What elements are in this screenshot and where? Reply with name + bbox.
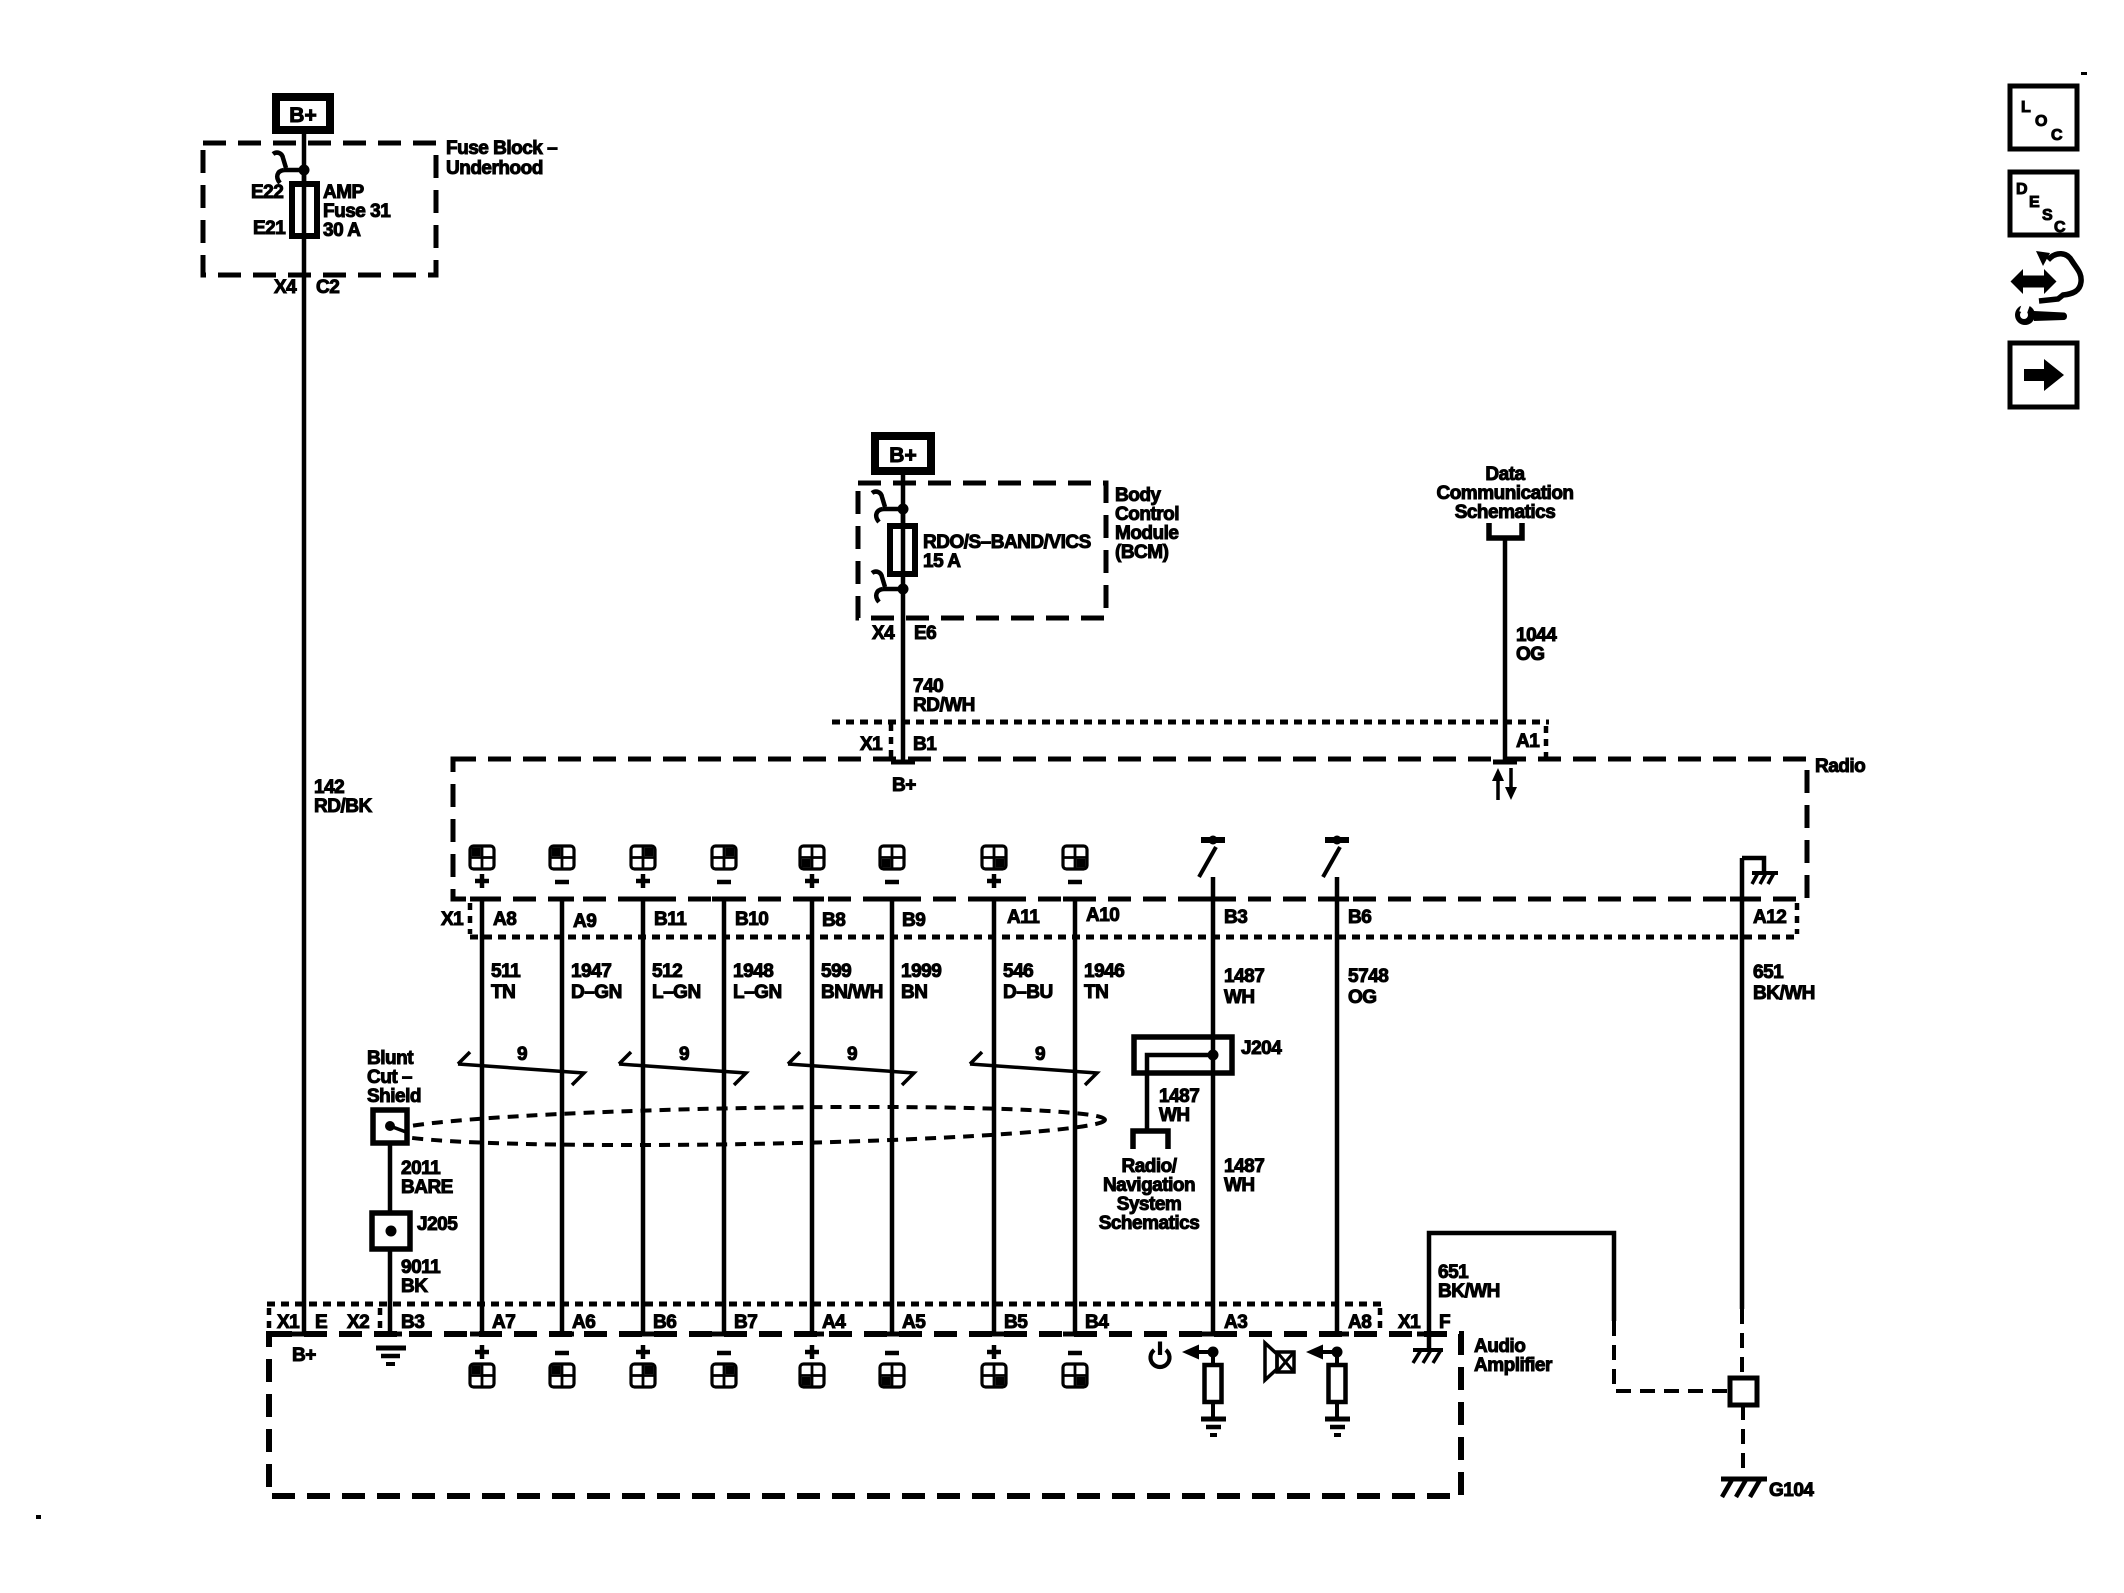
wire label 1946 TN — [1084, 961, 1124, 1003]
ground label G104 — [1769, 1480, 1814, 1501]
svg-text:B5: B5 — [1004, 1312, 1028, 1333]
speaker symbol RF+ (radio B11) — [631, 846, 655, 888]
svg-text:15 A: 15 A — [923, 551, 961, 572]
pin tick A3 — [1201, 1332, 1225, 1337]
svg-text:Radio/: Radio/ — [1121, 1156, 1177, 1177]
speaker symbol LR- (radio B9) — [880, 846, 904, 882]
wire from B+ to fuse block underhood — [302, 134, 307, 184]
pin tick A11 — [982, 897, 1006, 902]
wire label 1487 WH (upper) — [1224, 966, 1264, 1008]
pin label B4 — [1085, 1312, 1109, 1333]
radio connector X1 dotted row (top) — [832, 720, 1549, 725]
speck top right — [2081, 72, 2087, 75]
service icon forward arrow box — [2010, 343, 2077, 407]
svg-text:L: L — [2021, 99, 2031, 116]
svg-text:B7: B7 — [734, 1312, 757, 1333]
pin tick B6 — [631, 1332, 655, 1337]
radio connector X1 dotted row (bottom) — [470, 935, 1797, 940]
Data Communication Schematics reference label — [1436, 464, 1573, 523]
wire label 512 L-GN — [652, 961, 701, 1003]
connector tick between X1 and B1 — [889, 724, 894, 760]
wire 512 L-GN (B11 to B6) — [641, 899, 646, 1334]
wire label 546 D-BU — [1003, 961, 1053, 1003]
svg-text:BARE: BARE — [401, 1177, 453, 1198]
wire label 1487 WH (branch) — [1159, 1086, 1199, 1126]
wire label 740 RD/WH — [913, 676, 975, 716]
svg-text:Fuse Block –: Fuse Block – — [446, 138, 557, 159]
pin tick B1 — [891, 760, 915, 765]
svg-text:TN: TN — [1084, 982, 1108, 1003]
speaker symbol RR+ (amp B5) — [982, 1345, 1006, 1387]
ground connector box G104 — [1730, 1378, 1757, 1405]
svg-text:A5: A5 — [902, 1312, 926, 1333]
svg-text:G104: G104 — [1769, 1480, 1814, 1501]
svg-text:9: 9 — [517, 1044, 527, 1065]
speaker symbol LF- (amp A6) — [550, 1353, 574, 1387]
connector tick left (radio bottom X1) — [468, 903, 473, 934]
wire 142 RD/BK — [302, 236, 307, 1334]
pin label A12 — [1753, 907, 1786, 928]
connector label X1 (radio bottom) — [441, 909, 464, 930]
connector tick right end (radio bottom) — [1795, 903, 1800, 934]
wire 2011 BARE — [388, 1143, 393, 1334]
wire label 5748 OG — [1348, 966, 1388, 1008]
resistor (A8 pull-down) — [1329, 1352, 1346, 1419]
pin tick B11 — [631, 897, 655, 902]
service icon LOC box — [2010, 86, 2077, 149]
wire 1044 OG — [1503, 540, 1508, 762]
speaker symbol RR- (radio A10) — [1063, 846, 1087, 882]
twisted pair marker 1 (9 turns) — [458, 1044, 584, 1085]
pin tick A7 — [470, 1332, 494, 1337]
svg-text:WH: WH — [1224, 987, 1255, 1008]
pin tick B9 — [880, 897, 904, 902]
svg-text:A10: A10 — [1086, 905, 1119, 926]
antenna switch symbol (radio B3) — [1199, 836, 1225, 878]
audio amplifier dashed box — [269, 1334, 1461, 1496]
pin label B11 — [654, 909, 687, 930]
svg-text:B1: B1 — [913, 734, 937, 755]
radio label — [1815, 756, 1865, 777]
svg-text:RD/WH: RD/WH — [913, 695, 975, 716]
svg-text:Underhood: Underhood — [446, 158, 543, 179]
svg-text:B+: B+ — [292, 1345, 316, 1366]
svg-text:1947: 1947 — [571, 961, 611, 982]
svg-text:J205: J205 — [417, 1214, 458, 1235]
wire label 2011 BARE — [401, 1158, 453, 1198]
svg-text:1487: 1487 — [1159, 1086, 1199, 1107]
svg-text:599: 599 — [821, 961, 851, 982]
wire 5748 OG (B6 to A8) — [1335, 877, 1340, 1334]
svg-text:B8: B8 — [822, 910, 845, 931]
wire B+ into BCM — [901, 475, 906, 526]
wire 599 BN/WH (B8 to A4) — [810, 899, 815, 1334]
svg-text:X4: X4 — [872, 623, 895, 644]
connector tick before amp X1 F — [1378, 1308, 1383, 1331]
battery feed B+ box (top left) — [272, 93, 334, 134]
wire label 1948 L-GN — [733, 961, 782, 1003]
speaker symbol RR+ (radio A11) — [982, 846, 1006, 888]
pin label E — [315, 1312, 327, 1333]
svg-text:Cut –: Cut – — [367, 1067, 412, 1088]
svg-text:Module: Module — [1115, 523, 1179, 544]
svg-text:C: C — [2051, 127, 2063, 144]
fuse AMP Fuse 31 30 A — [292, 170, 317, 236]
svg-text:B4: B4 — [1085, 1312, 1109, 1333]
splice J204 — [1134, 1037, 1232, 1073]
speaker symbol RF- (amp B7) — [712, 1353, 736, 1387]
svg-text:BN: BN — [901, 982, 927, 1003]
svg-text:Fuse 31: Fuse 31 — [323, 201, 391, 222]
svg-text:RD/BK: RD/BK — [314, 796, 372, 817]
pin tick B6 — [1325, 897, 1349, 902]
dashed stub below G104 box — [1741, 1405, 1745, 1468]
wire 651 BK/WH (A12) — [1740, 858, 1745, 1309]
svg-text:D–BU: D–BU — [1003, 982, 1053, 1003]
pin label A7 — [492, 1312, 515, 1333]
svg-text:OG: OG — [1516, 644, 1545, 665]
svg-text:Body: Body — [1115, 485, 1161, 506]
radio dashed box — [453, 759, 1807, 899]
Radio/Navigation System Schematics reference label — [1099, 1156, 1200, 1234]
svg-text:Control: Control — [1115, 504, 1179, 525]
svg-text:A11: A11 — [1007, 907, 1040, 928]
control arrow to mute symbol (A8) — [1306, 1345, 1337, 1360]
fuse value label AMP Fuse 31 30 A — [323, 182, 391, 241]
svg-text:D: D — [2016, 181, 2028, 198]
dashed ground path from A12 to G104 — [1740, 1309, 1744, 1376]
fuse RDO/S-BAND/VICS 15 A — [890, 509, 915, 589]
wire 1487 WH (B3 to A3) — [1211, 877, 1216, 1334]
pin label A11 — [1007, 907, 1040, 928]
speck bottom left — [36, 1515, 41, 1519]
pin label A10 — [1086, 905, 1119, 926]
wire 1947 D-GN (A9 to A6) — [560, 899, 565, 1334]
svg-text:B6: B6 — [1348, 907, 1371, 928]
svg-text:BK/WH: BK/WH — [1438, 1281, 1500, 1302]
wire label 599 BN/WH — [821, 961, 883, 1003]
node B+ label inside radio — [892, 775, 916, 796]
svg-text:RDO/S–BAND/VICS: RDO/S–BAND/VICS — [923, 532, 1091, 553]
svg-text:30 A: 30 A — [323, 220, 361, 241]
speaker symbol LF+ (amp A7) — [470, 1345, 494, 1387]
node A8 junction dot — [1332, 1347, 1343, 1358]
svg-text:2011: 2011 — [401, 1158, 441, 1179]
twisted pair marker 3 (9 turns) — [788, 1044, 914, 1085]
svg-text:C2: C2 — [316, 277, 339, 298]
wire 546 D-BU (A11 to B5) — [992, 899, 997, 1334]
wire label 651 BK/WH (A12) — [1753, 962, 1815, 1004]
svg-text:B10: B10 — [735, 909, 768, 930]
connector label X1 (amp right) — [1398, 1312, 1421, 1333]
power on/off symbol — [1151, 1342, 1170, 1368]
splice J205 — [372, 1213, 410, 1249]
pin tick A8 amp — [1325, 1332, 1349, 1337]
pin label B6 (amp) — [653, 1312, 676, 1333]
svg-text:X4: X4 — [274, 277, 297, 298]
speaker mute symbol — [1265, 1343, 1294, 1380]
pin tick F — [1417, 1332, 1441, 1337]
pin tick B8 — [800, 897, 824, 902]
svg-text:X1: X1 — [1398, 1312, 1421, 1333]
pin label B6 — [1348, 907, 1371, 928]
svg-text:B6: B6 — [653, 1312, 676, 1333]
pin label A9 — [573, 911, 596, 932]
pin label A8 — [493, 909, 516, 930]
svg-text:F: F — [1439, 1312, 1450, 1333]
svg-text:9: 9 — [679, 1044, 689, 1065]
blunt cut shield label — [367, 1048, 421, 1107]
pin label B8 — [822, 910, 845, 931]
dashed ground path from 651 to G104 — [1614, 1321, 1728, 1391]
svg-text:A12: A12 — [1753, 907, 1786, 928]
internal chassis ground at radio A12 — [1742, 858, 1778, 884]
off-page connector bracket (Data Communication) — [1489, 523, 1522, 538]
wire 740 RD/WH — [901, 589, 906, 762]
twisted pair marker 2 (9 turns) — [619, 1044, 746, 1085]
speaker symbol LR- (amp A5) — [880, 1353, 904, 1387]
battery feed B+ box (BCM) — [871, 432, 935, 475]
BCM label — [1115, 485, 1179, 563]
svg-text:X2: X2 — [347, 1312, 369, 1333]
svg-text:Schematics: Schematics — [1099, 1213, 1200, 1234]
svg-text:1487: 1487 — [1224, 1156, 1264, 1177]
service icon wiring repair (double arrow, harness outline, wrench) — [2011, 251, 2082, 325]
twisted pair marker 4 (9 turns) — [970, 1044, 1097, 1085]
wire label 142 RD/BK — [314, 777, 372, 817]
svg-text:740: 740 — [913, 676, 943, 697]
wire 651 BK/WH from amp F — [1429, 1233, 1614, 1334]
connector terminal (half-arrow) above BCM fuse — [872, 492, 909, 522]
pin tick A10 — [1063, 897, 1087, 902]
wire 1946 TN (A10 to B4) — [1073, 899, 1078, 1334]
branch wire 1487 WH to radio/navigation — [1147, 1055, 1213, 1129]
svg-text:Blunt: Blunt — [367, 1048, 414, 1069]
pin tick A5 — [880, 1332, 904, 1337]
svg-text:E22: E22 — [251, 182, 283, 203]
svg-text:1999: 1999 — [901, 961, 941, 982]
shield dashed ellipse — [391, 1102, 1106, 1150]
connector labels X4 C2 — [274, 277, 339, 298]
svg-text:C: C — [2054, 219, 2066, 236]
wire label 1044 OG — [1516, 625, 1557, 665]
speaker symbol LR+ (radio B8) — [800, 846, 824, 888]
splice label J204 — [1241, 1038, 1282, 1059]
pin label A4 — [822, 1312, 846, 1333]
wire label 1947 D-GN — [571, 961, 622, 1003]
svg-text:O: O — [2035, 113, 2047, 130]
pin label A3 — [1224, 1312, 1247, 1333]
wire label 1999 BN — [901, 961, 941, 1003]
blunt cut connector box — [373, 1110, 407, 1143]
svg-text:X1: X1 — [441, 909, 464, 930]
wire 511 TN (A8 to A7) — [480, 899, 485, 1334]
wire label 9011 BK — [401, 1257, 441, 1297]
control arrow to power symbol (A3) — [1182, 1345, 1213, 1360]
bidirectional data arrows below A1 — [1492, 768, 1517, 800]
svg-text:A6: A6 — [572, 1312, 595, 1333]
pin tick A8 — [470, 897, 494, 902]
speaker symbol LF- (radio A9) — [550, 846, 574, 882]
wire 1948 L-GN (B10 to B7) — [722, 899, 727, 1334]
connector label X1 (radio top) — [860, 734, 883, 755]
svg-text:E: E — [315, 1312, 327, 1333]
splice label J205 — [417, 1214, 458, 1235]
pin tick A4 — [800, 1332, 824, 1337]
antenna switch symbol (radio B6) — [1323, 836, 1349, 878]
wire label 1487 WH (lower) — [1224, 1156, 1264, 1196]
svg-text:B+: B+ — [892, 775, 916, 796]
svg-text:Shield: Shield — [367, 1086, 421, 1107]
svg-text:1044: 1044 — [1516, 625, 1557, 646]
pin label B3 — [1224, 907, 1247, 928]
connector tick right of A1 — [1544, 726, 1549, 760]
pin tick A9 — [550, 897, 574, 902]
pin tick B4 — [1063, 1332, 1087, 1337]
earth ground (A8) — [1325, 1419, 1350, 1435]
pin tick A6 — [550, 1332, 574, 1337]
svg-text:A9: A9 — [573, 911, 596, 932]
pin label B10 — [735, 909, 768, 930]
speaker symbol LR+ (amp A4) — [800, 1345, 824, 1387]
resistor (A3 pull-down) — [1205, 1352, 1222, 1419]
connector label X2 — [347, 1312, 369, 1333]
speaker symbol LF+ (radio A8) — [470, 846, 494, 888]
svg-text:X1: X1 — [277, 1312, 300, 1333]
svg-text:WH: WH — [1224, 1175, 1255, 1196]
pin label A8 (amp) — [1348, 1312, 1371, 1333]
svg-text:A4: A4 — [822, 1312, 846, 1333]
chassis ground G104 — [1721, 1478, 1767, 1497]
svg-text:BK/WH: BK/WH — [1753, 983, 1815, 1004]
pin label E21 — [253, 218, 286, 239]
pin tick A1 — [1493, 760, 1517, 765]
svg-text:B3: B3 — [401, 1312, 424, 1333]
pin tick B3 — [1201, 897, 1225, 902]
wire 1999 BN (B9 to A5) — [890, 899, 895, 1334]
pin tick B3 shield — [378, 1332, 402, 1337]
svg-text:B+: B+ — [289, 104, 316, 127]
svg-text:Radio: Radio — [1815, 756, 1865, 777]
pin label B5 — [1004, 1312, 1028, 1333]
pin tick B7 — [712, 1332, 736, 1337]
svg-text:142: 142 — [314, 777, 344, 798]
fuse block underhood label — [446, 138, 557, 179]
svg-text:B3: B3 — [1224, 907, 1247, 928]
connector terminal E22 (half-arrow) — [273, 153, 310, 183]
service icon DESC box — [2010, 172, 2077, 236]
svg-text:Schematics: Schematics — [1455, 502, 1556, 523]
svg-text:651: 651 — [1438, 1262, 1469, 1283]
svg-text:1946: 1946 — [1084, 961, 1124, 982]
svg-text:512: 512 — [652, 961, 682, 982]
pin tick B5 — [982, 1332, 1006, 1337]
svg-text:651: 651 — [1753, 962, 1784, 983]
pin tick E — [292, 1332, 316, 1337]
off-page connector bracket (Radio/Navigation) — [1133, 1131, 1168, 1149]
wire label 511 TN — [491, 961, 521, 1003]
audio amplifier label — [1474, 1336, 1553, 1376]
svg-text:9011: 9011 — [401, 1257, 441, 1278]
svg-text:Communication: Communication — [1436, 483, 1573, 504]
svg-text:5748: 5748 — [1348, 966, 1388, 987]
pin label B3 (amp) — [401, 1312, 424, 1333]
svg-text:Amplifier: Amplifier — [1474, 1355, 1553, 1376]
node B+ label inside amplifier — [292, 1345, 316, 1366]
pin label F — [1439, 1312, 1450, 1333]
svg-text:BK: BK — [401, 1276, 428, 1297]
svg-text:B+: B+ — [889, 444, 916, 467]
fuse block underhood dashed box — [203, 143, 436, 275]
connector terminal (half-arrow) below BCM fuse — [872, 572, 909, 602]
svg-text:WH: WH — [1159, 1105, 1190, 1126]
svg-text:511: 511 — [491, 961, 521, 982]
speaker symbol RF- (radio B10) — [712, 846, 736, 882]
connector tick between X2 and B3 — [378, 1308, 383, 1331]
svg-text:A7: A7 — [492, 1312, 515, 1333]
pin label B9 — [902, 910, 925, 931]
internal chassis ground at amp F — [1413, 1334, 1443, 1363]
pin label E22 — [251, 182, 283, 203]
connector label X1 (amp left) — [277, 1312, 300, 1333]
svg-text:Navigation: Navigation — [1103, 1175, 1195, 1196]
svg-text:9: 9 — [847, 1044, 857, 1065]
svg-text:Audio: Audio — [1474, 1336, 1525, 1357]
fuse value label RDO/S-BAND/VICS 15 A — [923, 532, 1091, 572]
amplifier connector dotted row — [267, 1302, 1381, 1307]
earth ground for shield drain (amp B3) — [376, 1348, 406, 1364]
svg-text:E6: E6 — [914, 623, 936, 644]
speaker symbol RF+ (amp B6) — [631, 1345, 655, 1387]
connector labels X4 E6 — [872, 623, 936, 644]
svg-text:Data: Data — [1485, 464, 1525, 485]
svg-text:E21: E21 — [253, 218, 286, 239]
svg-text:OG: OG — [1348, 987, 1377, 1008]
svg-text:A1: A1 — [1516, 731, 1540, 752]
svg-text:A8: A8 — [1348, 1312, 1371, 1333]
svg-text:546: 546 — [1003, 961, 1033, 982]
svg-text:L–GN: L–GN — [652, 982, 701, 1003]
earth ground (A3) — [1201, 1419, 1226, 1435]
svg-text:9: 9 — [1035, 1044, 1045, 1065]
svg-text:J204: J204 — [1241, 1038, 1282, 1059]
svg-text:System: System — [1117, 1194, 1182, 1215]
pin tick A12 — [1730, 897, 1754, 902]
svg-text:BN/WH: BN/WH — [821, 982, 883, 1003]
pin label A1 — [1516, 731, 1540, 752]
connector tick left end (amp X1) — [267, 1308, 272, 1331]
wire label 651 BK/WH (amp F) — [1438, 1262, 1500, 1302]
node A3 junction dot — [1208, 1347, 1219, 1358]
BCM dashed box — [858, 483, 1106, 618]
svg-text:L–GN: L–GN — [733, 982, 782, 1003]
pin label A5 — [902, 1312, 926, 1333]
svg-text:E: E — [2029, 194, 2040, 211]
svg-text:A8: A8 — [493, 909, 516, 930]
pin label B1 — [913, 734, 937, 755]
svg-text:AMP: AMP — [323, 182, 365, 203]
svg-text:B11: B11 — [654, 909, 687, 930]
svg-text:TN: TN — [491, 982, 515, 1003]
svg-text:1487: 1487 — [1224, 966, 1264, 987]
svg-text:D–GN: D–GN — [571, 982, 622, 1003]
svg-text:(BCM): (BCM) — [1115, 542, 1169, 563]
svg-text:B9: B9 — [902, 910, 925, 931]
pin label A6 — [572, 1312, 595, 1333]
svg-text:A3: A3 — [1224, 1312, 1247, 1333]
pin tick B10 — [712, 897, 736, 902]
svg-text:X1: X1 — [860, 734, 883, 755]
